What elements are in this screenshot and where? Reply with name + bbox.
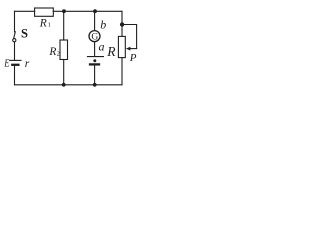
svg-text:E: E xyxy=(3,58,9,70)
svg-text:R: R xyxy=(48,46,56,58)
cell long plate xyxy=(88,56,104,58)
junction node dot bottom R2 xyxy=(62,83,66,87)
wire wiper branch xyxy=(122,25,137,49)
wire G branch middle xyxy=(94,42,96,56)
svg-text:P: P xyxy=(129,52,137,64)
galvanometer G circle xyxy=(89,31,100,42)
wire bottom rail xyxy=(15,84,123,86)
wire R2 branch lower xyxy=(63,60,65,85)
svg-text:S: S xyxy=(21,26,28,40)
svg-text:R: R xyxy=(106,44,116,59)
junction node dot top G xyxy=(93,9,97,13)
switch S terminal circle xyxy=(13,39,16,42)
wire left rail upper xyxy=(14,11,16,32)
wire top rail right segment xyxy=(53,10,122,12)
wire top rail left segment xyxy=(15,10,35,12)
svg-text:1: 1 xyxy=(48,22,51,29)
wire left rail lower xyxy=(14,66,16,85)
cell short plate xyxy=(90,63,99,65)
svg-text:2: 2 xyxy=(57,50,60,57)
wiper arrow shaft xyxy=(130,48,137,50)
wire right rail lower xyxy=(121,58,123,85)
junction node dot top R2 xyxy=(62,9,66,13)
battery E long plate xyxy=(10,59,21,61)
wiper arrowhead P xyxy=(126,47,131,51)
junction node dot wiper xyxy=(120,22,124,26)
switch S blade xyxy=(14,32,16,39)
svg-text:r: r xyxy=(25,58,30,70)
svg-text:a: a xyxy=(99,40,105,54)
svg-text:b: b xyxy=(100,18,106,32)
resistor R1 box xyxy=(35,8,54,16)
wire G branch lower xyxy=(94,66,96,85)
wire R2 branch upper xyxy=(63,11,65,40)
junction node dot bottom G xyxy=(93,83,97,87)
battery E short plate xyxy=(12,64,18,66)
wire left rail middle xyxy=(14,42,16,60)
potentiometer R box xyxy=(118,36,125,57)
cell middle dot xyxy=(93,59,96,62)
svg-text:R: R xyxy=(39,18,47,30)
resistor R2 box xyxy=(60,40,68,60)
svg-text:G: G xyxy=(91,33,98,43)
wire right rail upper xyxy=(121,11,123,36)
wire G branch upper xyxy=(94,11,96,30)
